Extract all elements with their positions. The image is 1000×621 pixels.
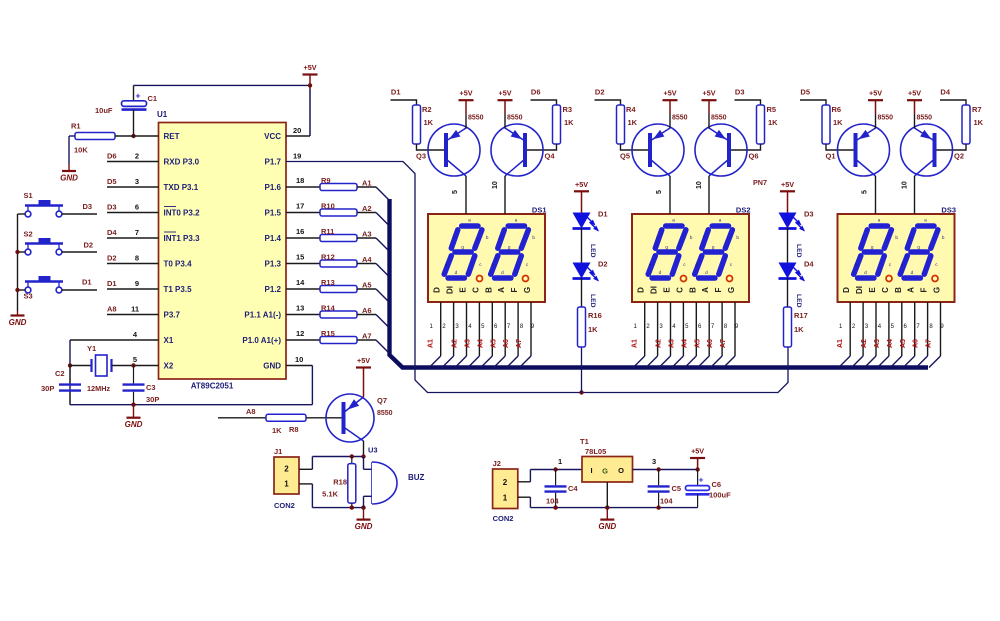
svg-text:DI: DI	[446, 286, 455, 294]
svg-text:+5V: +5V	[691, 447, 704, 456]
svg-text:T1: T1	[580, 437, 589, 446]
svg-text:D6: D6	[531, 88, 541, 97]
svg-text:A6: A6	[913, 339, 920, 348]
svg-text:A1: A1	[837, 339, 844, 348]
svg-text:DS3: DS3	[941, 206, 956, 215]
svg-text:16: 16	[296, 227, 304, 236]
svg-text:A3: A3	[362, 230, 372, 239]
svg-text:18: 18	[296, 176, 304, 185]
svg-text:b: b	[690, 235, 693, 240]
svg-text:A2: A2	[861, 339, 868, 348]
svg-text:LED: LED	[795, 244, 802, 258]
svg-text:15: 15	[296, 253, 304, 262]
svg-text:S1: S1	[24, 191, 33, 200]
svg-text:D2: D2	[84, 241, 94, 250]
svg-text:LED: LED	[589, 294, 596, 308]
svg-text:R15: R15	[321, 329, 335, 338]
svg-text:R10: R10	[321, 202, 335, 211]
svg-text:g: g	[917, 245, 920, 250]
svg-text:D1: D1	[107, 279, 117, 288]
svg-text:1K: 1K	[974, 118, 984, 127]
svg-text:R4: R4	[626, 105, 636, 114]
svg-text:R3: R3	[563, 105, 573, 114]
svg-text:P3.7: P3.7	[164, 311, 181, 320]
svg-text:1K: 1K	[272, 426, 282, 435]
svg-text:VCC: VCC	[264, 132, 281, 141]
svg-text:GND: GND	[598, 522, 616, 531]
svg-text:LED: LED	[795, 294, 802, 308]
svg-text:2: 2	[135, 152, 139, 161]
svg-text:D2: D2	[595, 88, 605, 97]
svg-text:A4: A4	[887, 339, 894, 348]
svg-text:GND: GND	[263, 362, 281, 371]
svg-text:P1.6: P1.6	[265, 183, 282, 192]
svg-text:A8: A8	[246, 407, 256, 416]
svg-text:GND: GND	[9, 318, 27, 327]
svg-text:P1.4: P1.4	[265, 234, 282, 243]
svg-text:C6: C6	[712, 480, 722, 489]
svg-text:b: b	[486, 235, 489, 240]
svg-text:Q2: Q2	[954, 152, 964, 161]
svg-text:D3: D3	[735, 88, 745, 97]
svg-text:S3: S3	[24, 292, 33, 301]
svg-text:R12: R12	[321, 253, 335, 262]
svg-text:8550: 8550	[917, 115, 933, 122]
svg-text:5.1K: 5.1K	[322, 490, 338, 499]
svg-text:d: d	[659, 270, 662, 275]
svg-text:A3: A3	[465, 339, 472, 348]
svg-text:A7: A7	[720, 339, 727, 348]
svg-text:PN7: PN7	[753, 178, 767, 187]
svg-text:11: 11	[131, 305, 139, 314]
svg-text:S2: S2	[24, 230, 33, 239]
svg-text:5: 5	[452, 190, 459, 194]
svg-text:3: 3	[135, 177, 139, 186]
svg-text:6: 6	[135, 203, 139, 212]
svg-text:9: 9	[135, 279, 139, 288]
svg-text:Q5: Q5	[620, 152, 630, 161]
svg-text:Q7: Q7	[377, 396, 387, 405]
svg-text:D1: D1	[598, 210, 608, 219]
svg-text:3: 3	[652, 457, 656, 466]
svg-text:+5V: +5V	[781, 180, 794, 189]
svg-text:8550: 8550	[878, 115, 894, 122]
svg-text:R11: R11	[321, 227, 334, 236]
svg-text:A4: A4	[681, 339, 688, 348]
svg-text:A: A	[497, 287, 506, 293]
svg-text:INT1 P3.3: INT1 P3.3	[164, 234, 201, 243]
svg-text:d: d	[455, 270, 458, 275]
svg-text:a: a	[878, 218, 881, 223]
svg-text:8550: 8550	[672, 115, 688, 122]
svg-text:A6: A6	[503, 339, 510, 348]
svg-text:E: E	[663, 287, 672, 293]
svg-text:A1: A1	[362, 179, 372, 188]
svg-text:A6: A6	[707, 339, 714, 348]
svg-text:12: 12	[296, 329, 304, 338]
svg-text:G: G	[727, 287, 736, 293]
svg-text:a: a	[672, 218, 675, 223]
svg-text:RET: RET	[164, 132, 180, 141]
svg-text:13: 13	[296, 304, 304, 313]
svg-text:1K: 1K	[768, 118, 778, 127]
svg-text:1: 1	[284, 480, 289, 489]
svg-text:R18: R18	[333, 478, 347, 487]
svg-text:g: g	[508, 245, 511, 250]
svg-text:Y1: Y1	[87, 344, 96, 353]
svg-text:R7: R7	[972, 105, 982, 114]
svg-text:2: 2	[503, 478, 508, 487]
svg-text:A7: A7	[926, 339, 933, 348]
svg-text:TXD P3.1: TXD P3.1	[164, 183, 199, 192]
svg-text:Q3: Q3	[416, 152, 426, 161]
svg-text:7: 7	[135, 228, 139, 237]
svg-text:R6: R6	[832, 105, 842, 114]
svg-text:D5: D5	[107, 177, 117, 186]
svg-text:P1.5: P1.5	[265, 209, 282, 218]
svg-text:D4: D4	[804, 260, 814, 269]
svg-text:A7: A7	[516, 339, 523, 348]
svg-text:P1.2: P1.2	[265, 285, 282, 294]
svg-text:1K: 1K	[794, 325, 804, 334]
svg-text:G: G	[523, 287, 532, 293]
svg-text:d: d	[501, 270, 504, 275]
svg-text:+5V: +5V	[499, 89, 512, 98]
svg-text:A3: A3	[669, 339, 676, 348]
svg-text:O: O	[618, 466, 624, 475]
svg-text:A: A	[701, 287, 710, 293]
svg-text:CON2: CON2	[493, 514, 514, 523]
svg-text:F: F	[920, 287, 929, 292]
svg-text:GND: GND	[125, 420, 143, 429]
svg-text:104: 104	[660, 497, 673, 506]
svg-text:d: d	[705, 270, 708, 275]
svg-text:DS2: DS2	[736, 206, 751, 215]
svg-text:A1: A1	[428, 339, 435, 348]
svg-text:A4: A4	[477, 339, 484, 348]
svg-text:e: e	[854, 262, 857, 267]
svg-text:INT0 P3.2: INT0 P3.2	[164, 209, 201, 218]
svg-text:b: b	[532, 235, 535, 240]
svg-text:A: A	[907, 287, 916, 293]
svg-text:g: g	[712, 245, 715, 250]
svg-text:e: e	[491, 262, 494, 267]
svg-text:LED: LED	[589, 244, 596, 258]
svg-text:10: 10	[492, 181, 499, 189]
svg-text:D3: D3	[804, 210, 814, 219]
svg-text:30P: 30P	[146, 395, 159, 404]
svg-text:B: B	[688, 287, 697, 293]
svg-text:D3: D3	[107, 203, 117, 212]
svg-text:5: 5	[133, 355, 137, 364]
svg-text:J1: J1	[274, 447, 282, 456]
svg-text:A5: A5	[490, 339, 497, 348]
svg-text:d: d	[911, 270, 914, 275]
svg-text:T0 P3.4: T0 P3.4	[164, 260, 193, 269]
svg-text:5: 5	[656, 190, 663, 194]
svg-text:R14: R14	[321, 304, 336, 313]
svg-text:A6: A6	[362, 306, 372, 315]
svg-text:E: E	[868, 287, 877, 293]
svg-text:+5V: +5V	[357, 356, 370, 365]
svg-text:d: d	[864, 270, 867, 275]
svg-text:C4: C4	[568, 484, 578, 493]
svg-text:Q1: Q1	[826, 152, 836, 161]
svg-text:a: a	[924, 218, 927, 223]
svg-text:1K: 1K	[564, 118, 574, 127]
svg-text:CON2: CON2	[274, 501, 295, 510]
svg-text:R9: R9	[321, 176, 331, 185]
svg-text:A2: A2	[452, 339, 459, 348]
svg-text:C3: C3	[146, 383, 156, 392]
svg-text:J2: J2	[493, 459, 501, 468]
svg-text:1K: 1K	[424, 118, 434, 127]
svg-text:+5V: +5V	[460, 89, 473, 98]
svg-text:R13: R13	[321, 278, 335, 287]
svg-text:A2: A2	[656, 339, 663, 348]
svg-text:F: F	[510, 287, 519, 292]
svg-text:A2: A2	[362, 204, 372, 213]
svg-text:C5: C5	[672, 484, 682, 493]
svg-text:A5: A5	[362, 281, 372, 290]
svg-text:+5V: +5V	[703, 89, 716, 98]
svg-text:b: b	[895, 235, 898, 240]
svg-text:e: e	[695, 262, 698, 267]
svg-text:a: a	[719, 218, 722, 223]
svg-text:D: D	[637, 287, 646, 293]
svg-text:R5: R5	[767, 105, 777, 114]
svg-text:20: 20	[293, 126, 301, 135]
svg-text:+5V: +5V	[575, 180, 588, 189]
svg-text:C: C	[881, 287, 890, 293]
svg-text:g: g	[665, 245, 668, 250]
svg-text:C: C	[471, 287, 480, 293]
svg-text:U3: U3	[368, 446, 378, 455]
svg-text:DS1: DS1	[532, 206, 547, 215]
svg-text:b: b	[736, 235, 739, 240]
svg-text:U1: U1	[157, 110, 168, 119]
svg-text:78L05: 78L05	[585, 447, 606, 456]
svg-text:b: b	[942, 235, 945, 240]
svg-text:G: G	[933, 287, 942, 293]
svg-text:14: 14	[296, 278, 305, 287]
svg-text:R17: R17	[794, 311, 808, 320]
svg-text:10K: 10K	[74, 146, 88, 155]
svg-text:100uF: 100uF	[709, 491, 731, 500]
svg-text:R1: R1	[71, 122, 81, 131]
svg-text:8550: 8550	[377, 410, 393, 417]
svg-text:T1 P3.5: T1 P3.5	[164, 285, 193, 294]
svg-text:e: e	[445, 262, 448, 267]
svg-text:F: F	[714, 287, 723, 292]
svg-text:e: e	[901, 262, 904, 267]
svg-text:8: 8	[135, 254, 139, 263]
svg-text:10uF: 10uF	[95, 106, 113, 115]
svg-text:e: e	[649, 262, 652, 267]
svg-text:g: g	[461, 245, 464, 250]
svg-text:104: 104	[546, 497, 559, 506]
svg-text:A7: A7	[362, 332, 372, 341]
svg-text:A3: A3	[874, 339, 881, 348]
svg-text:10: 10	[902, 181, 909, 189]
svg-text:19: 19	[293, 152, 301, 161]
svg-text:X1: X1	[164, 336, 174, 345]
svg-text:B: B	[484, 287, 493, 293]
svg-text:A4: A4	[362, 255, 372, 264]
svg-text:A8: A8	[107, 305, 117, 314]
svg-text:2: 2	[284, 465, 289, 474]
svg-text:P1.1 A1(-): P1.1 A1(-)	[244, 311, 281, 320]
svg-text:+5V: +5V	[304, 63, 317, 72]
svg-text:AT89C2051: AT89C2051	[191, 382, 234, 391]
svg-text:I: I	[591, 466, 593, 475]
svg-text:A5: A5	[694, 339, 701, 348]
svg-text:+5V: +5V	[908, 89, 921, 98]
svg-text:10: 10	[696, 181, 703, 189]
svg-text:+5V: +5V	[664, 89, 677, 98]
svg-text:D3: D3	[83, 202, 93, 211]
svg-text:a: a	[515, 218, 518, 223]
svg-text:1K: 1K	[628, 118, 638, 127]
svg-text:R8: R8	[289, 425, 299, 434]
svg-text:BUZ: BUZ	[408, 473, 425, 482]
svg-text:D1: D1	[391, 88, 401, 97]
svg-text:D1: D1	[82, 278, 92, 287]
svg-text:D: D	[433, 287, 442, 293]
svg-text:+: +	[699, 475, 704, 485]
svg-text:D6: D6	[107, 152, 117, 161]
svg-text:D5: D5	[800, 88, 810, 97]
svg-text:P1.3: P1.3	[265, 260, 282, 269]
svg-text:R2: R2	[422, 105, 432, 114]
svg-text:10: 10	[295, 355, 303, 364]
svg-text:1K: 1K	[833, 118, 843, 127]
svg-text:A5: A5	[900, 339, 907, 348]
svg-text:D4: D4	[940, 88, 950, 97]
svg-text:C2: C2	[55, 369, 65, 378]
svg-text:P1.0 A1(+): P1.0 A1(+)	[242, 336, 281, 345]
svg-text:RXD P3.0: RXD P3.0	[164, 158, 200, 167]
svg-text:1: 1	[558, 457, 562, 466]
svg-text:1: 1	[503, 494, 508, 503]
svg-text:g: g	[871, 245, 874, 250]
svg-text:D4: D4	[107, 228, 117, 237]
svg-text:+: +	[136, 91, 141, 101]
svg-text:Q6: Q6	[749, 152, 759, 161]
svg-text:DI: DI	[650, 286, 659, 294]
svg-text:GND: GND	[60, 174, 78, 183]
svg-text:D: D	[842, 287, 851, 293]
svg-text:G: G	[602, 467, 608, 476]
svg-text:C: C	[675, 287, 684, 293]
svg-text:DI: DI	[855, 286, 864, 294]
svg-text:C1: C1	[148, 94, 158, 103]
svg-text:X2: X2	[164, 362, 174, 371]
svg-text:30P: 30P	[41, 384, 54, 393]
svg-text:P1.7: P1.7	[265, 158, 282, 167]
svg-text:GND: GND	[355, 522, 373, 531]
svg-text:5: 5	[862, 190, 869, 194]
svg-text:12MHz: 12MHz	[87, 384, 110, 393]
svg-text:8550: 8550	[507, 115, 523, 122]
svg-text:D2: D2	[598, 260, 608, 269]
svg-text:1K: 1K	[588, 325, 598, 334]
svg-text:D2: D2	[107, 254, 117, 263]
svg-text:Q4: Q4	[545, 152, 556, 161]
svg-text:8550: 8550	[468, 115, 484, 122]
svg-text:8550: 8550	[711, 115, 727, 122]
svg-text:17: 17	[296, 202, 304, 211]
svg-text:+5V: +5V	[869, 89, 882, 98]
svg-text:B: B	[894, 287, 903, 293]
svg-text:E: E	[459, 287, 468, 293]
svg-text:R16: R16	[588, 311, 602, 320]
svg-text:a: a	[468, 218, 471, 223]
svg-text:A1: A1	[632, 339, 639, 348]
